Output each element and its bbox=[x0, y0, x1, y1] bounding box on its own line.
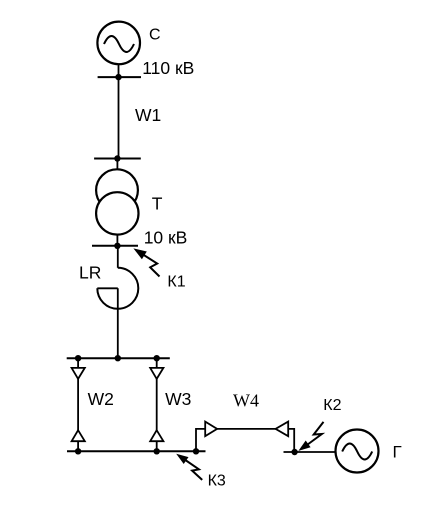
svg-text:Т: Т bbox=[152, 194, 163, 214]
svg-text:К1: К1 bbox=[167, 273, 185, 290]
svg-text:С: С bbox=[149, 27, 161, 44]
svg-text:10 кВ: 10 кВ bbox=[144, 228, 188, 248]
svg-text:W3: W3 bbox=[165, 389, 191, 409]
svg-text:К2: К2 bbox=[323, 397, 341, 414]
svg-text:W1: W1 bbox=[135, 105, 161, 125]
svg-text:LR: LR bbox=[79, 263, 101, 283]
svg-text:W2: W2 bbox=[88, 389, 114, 409]
svg-text:Г: Г bbox=[393, 443, 402, 462]
svg-text:W4: W4 bbox=[233, 391, 259, 411]
svg-text:110 кВ: 110 кВ bbox=[142, 58, 194, 78]
svg-text:К3: К3 bbox=[208, 473, 226, 490]
